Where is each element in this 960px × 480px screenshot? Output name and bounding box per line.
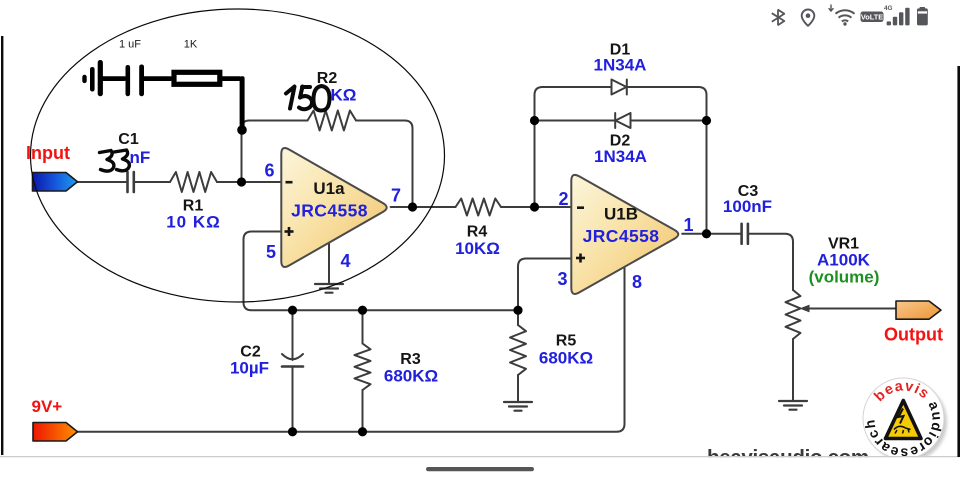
svg-text:nF: nF: [130, 148, 151, 167]
svg-text:Output: Output: [884, 325, 943, 345]
capacitor C3: [742, 224, 748, 244]
wire D2 left: [535, 120, 616, 122]
svg-text:1: 1: [683, 215, 693, 235]
wifi icon: [836, 10, 855, 21]
wire U1B output to C3: [682, 233, 741, 235]
beavis audio logo: [861, 378, 947, 462]
hand-drawn wire 3: [221, 76, 241, 81]
download arrow: [829, 5, 834, 12]
footer divider line: [0, 456, 960, 458]
wire R3 bottom: [362, 390, 364, 432]
hand-drawn ellipse annotation: [31, 9, 445, 302]
wire R5 to ground: [517, 375, 519, 401]
wire D2 right: [631, 120, 707, 122]
wire pin 3 down to bias rail: [518, 259, 571, 311]
HANDDRAWN: [82, 60, 247, 135]
svg-text:1N34A: 1N34A: [594, 147, 647, 166]
resistor R2: [308, 111, 357, 131]
wire node A to pin 6: [242, 181, 282, 183]
wire U1a output to R4: [391, 206, 456, 208]
junction bias rail / R3: [358, 306, 367, 315]
wire R1 to node A: [217, 181, 242, 183]
handwritten 150: [286, 86, 330, 111]
wire R5 branch: [517, 310, 519, 325]
hand-drawn wire 1: [101, 76, 126, 81]
svg-text:10 KΩ: 10 KΩ: [166, 213, 221, 232]
svg-text:1 uF: 1 uF: [119, 39, 141, 51]
right screen edge: [957, 66, 960, 457]
svg-text:JRC4558: JRC4558: [291, 201, 368, 221]
hand-drawn cap plate B: [98, 60, 103, 96]
wire C1 to R1: [135, 181, 171, 183]
VoLTE badge: [861, 12, 884, 23]
op-amp U1B: [571, 175, 678, 294]
U1a plus sign: [285, 227, 294, 236]
handwritten 33: [100, 150, 130, 171]
svg-text:1N34A: 1N34A: [594, 56, 647, 75]
diode D1: [612, 80, 627, 95]
wiper arrow of VR1: [800, 305, 810, 313]
wire input to C1: [77, 181, 126, 183]
junction D2 left: [530, 116, 539, 125]
wire 9V rail to pin 8: [77, 267, 625, 432]
svg-text:R4: R4: [467, 224, 488, 241]
svg-text:6: 6: [264, 161, 274, 181]
svg-text:R3: R3: [400, 351, 421, 368]
svg-text:4G: 4G: [884, 5, 893, 12]
junction bias rail / R5 / pin3: [513, 306, 522, 315]
svg-text:100nF: 100nF: [723, 197, 772, 216]
bluetooth icon: [772, 10, 785, 26]
wire VR1 wiper to output: [806, 308, 896, 310]
resistor R5: [510, 325, 526, 375]
signal bars: [887, 21, 891, 25]
junction node A (R1 / pin6 / feedback): [237, 177, 246, 186]
svg-text:R5: R5: [556, 333, 577, 350]
resistor R3: [355, 344, 371, 391]
svg-text:3: 3: [557, 269, 567, 289]
svg-text:(volume): (volume): [809, 268, 880, 287]
op-amp U1a: [281, 148, 386, 267]
resistor R4: [456, 199, 502, 216]
wire D1 cathode to right corner: [628, 87, 707, 234]
warning triangle: [886, 401, 922, 439]
wire pin 5 to bias rail: [244, 232, 519, 311]
wire node C up through D2 to D1: [535, 87, 612, 207]
svg-text:Input: Input: [26, 143, 70, 163]
U1B plus sign: [576, 254, 585, 263]
potentiometer VR1: [786, 290, 801, 339]
location icon: [802, 9, 815, 25]
junction node B (U1a output): [408, 202, 417, 211]
svg-text:680KΩ: 680KΩ: [384, 367, 438, 386]
left screen edge: [1, 36, 3, 455]
wire C2 bottom: [292, 367, 294, 432]
junction node C (pin 2): [530, 202, 539, 211]
capacitor C2 flat plate: [282, 365, 303, 368]
ground under VR1: [779, 401, 807, 410]
hand-drawn cap plate D: [139, 65, 144, 97]
hand-drawn junction blob: [237, 125, 247, 135]
nav pill: [426, 467, 534, 471]
junction U1B output node: [702, 229, 711, 238]
wire R3 top branch: [362, 310, 364, 343]
junction bias rail / C2: [288, 306, 297, 315]
svg-text:2: 2: [558, 189, 568, 209]
wire VR1 to ground: [792, 339, 794, 400]
hand-drawn wire down: [240, 76, 245, 130]
white footer strip: [0, 457, 960, 480]
wire R2 to output node B: [356, 121, 413, 208]
hand-drawn cap plate A: [90, 67, 95, 92]
svg-text:10µF: 10µF: [230, 359, 269, 378]
svg-text:680KΩ: 680KΩ: [539, 349, 593, 368]
svg-text:7: 7: [391, 186, 401, 206]
svg-text:1K: 1K: [184, 39, 198, 51]
svg-text:VoLTE: VoLTE: [861, 13, 883, 22]
wire C2 top branch: [292, 310, 294, 360]
svg-text:U1a: U1a: [313, 179, 345, 198]
junction 9V rail / C2: [288, 427, 297, 436]
hand-drawn terminal dot: [82, 75, 86, 83]
wire C3 to VR1: [749, 234, 794, 290]
wire U1a pin 4 to ground: [328, 243, 330, 283]
diode D2: [615, 113, 630, 128]
junction D2 right: [702, 116, 711, 125]
hand-drawn wire 2: [143, 76, 172, 81]
battery icon: [920, 7, 926, 9]
wire R4 to node C and pin 2: [501, 206, 571, 208]
STATUSBAR: [772, 5, 928, 26]
hand-drawn resistor box 1K: [174, 72, 220, 84]
svg-text:9V+: 9V+: [32, 397, 63, 416]
output connector: [896, 301, 941, 319]
ground under U1a pin 4: [315, 284, 343, 293]
input connector: [33, 173, 78, 192]
ground under R5: [504, 402, 532, 411]
capacitor C2 curved plate: [282, 354, 303, 359]
svg-text:8: 8: [632, 272, 642, 292]
capacitor C1: [128, 172, 134, 192]
svg-text:KΩ: KΩ: [331, 86, 357, 105]
svg-text:C1: C1: [118, 131, 139, 148]
junction 9V rail / R3: [358, 427, 367, 436]
hand-drawn cap plate C: [126, 65, 131, 96]
svg-text:U1B: U1B: [604, 205, 638, 224]
U1B minus sign: [577, 206, 584, 209]
svg-text:10KΩ: 10KΩ: [455, 239, 500, 258]
svg-text:JRC4558: JRC4558: [583, 226, 660, 246]
9V+ connector: [33, 423, 78, 442]
U1a minus sign: [286, 181, 293, 184]
svg-text:4: 4: [340, 251, 350, 271]
svg-text:5: 5: [266, 242, 276, 262]
wire feedback node A up to R2: [242, 121, 308, 183]
resistor R1: [170, 172, 217, 192]
